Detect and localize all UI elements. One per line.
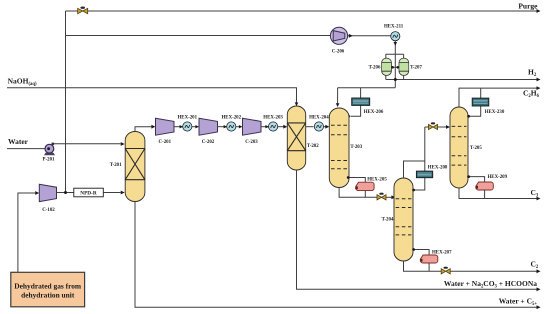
wire HEX-204 to T-203 (323, 125, 329, 129)
svg-text:T-204: T-204 (382, 218, 394, 223)
node NaOH label (8, 77, 37, 88)
svg-text:C-201: C-201 (159, 140, 172, 145)
wire T-202 bottoms to Na2CO3 outlet (297, 170, 541, 291)
wire T-201 overhead to C-201 (135, 125, 155, 132)
node C2 label (531, 260, 539, 271)
heat exchanger HEX-204 (314, 122, 323, 131)
node C2H6 label (523, 89, 540, 100)
source box dehydrated gas (11, 272, 85, 307)
wire PSA crossover (391, 66, 399, 69)
wire T-204 bottoms to C2 outlet (404, 261, 541, 273)
node HEX-203 label (263, 116, 283, 121)
svg-text:HEX-207: HEX-207 (432, 250, 452, 255)
node HEX-208 label (428, 166, 448, 171)
node HEX-230 label (485, 110, 505, 115)
svg-text:T-202: T-202 (307, 144, 319, 149)
wire T-203 side reboiler HEX-205 branch (347, 176, 365, 197)
wire T-204 side reboiler HEX-207 branch (412, 248, 429, 271)
wire HEX-230 branch (467, 88, 481, 118)
heat exchanger HEX-202 (227, 122, 236, 131)
node H2 label (528, 68, 537, 79)
node Water label (8, 137, 29, 146)
column T-202 (287, 106, 305, 170)
svg-text:HEX-208: HEX-208 (428, 166, 448, 171)
svg-text:HEX-206: HEX-206 (364, 110, 384, 115)
vessel T-206 (382, 58, 392, 75)
wire PSA top header (386, 54, 404, 58)
wire purge line y11 (66, 9, 541, 13)
compressor C-203 (243, 118, 262, 135)
svg-text:Water + C5+: Water + C5+ (499, 297, 538, 308)
wire PSA bottoms and H2 header (386, 76, 541, 82)
wire HEX-202 to C-203 (236, 125, 243, 128)
node Purge label (518, 1, 538, 10)
node T-204 label (382, 218, 394, 223)
svg-text:C-203: C-203 (245, 140, 258, 145)
svg-text:T-206: T-206 (369, 65, 381, 70)
node C-203 label (245, 140, 258, 145)
valve T-204 bottoms (441, 267, 450, 274)
svg-text:C-202: C-202 (202, 140, 215, 145)
node junction trunk-feed (64, 191, 67, 194)
node C3 label (531, 188, 539, 199)
node HEX-209 label (488, 175, 508, 180)
wire recycle to C-206 y35.5 (66, 35, 331, 37)
wire T-201 bottoms to C5+ outlet (135, 202, 541, 310)
svg-text:HEX-205: HEX-205 (367, 178, 387, 183)
node HEX-204 label (309, 116, 329, 121)
heat exchanger HEX-205 (355, 182, 374, 190)
column T-204 (394, 178, 413, 261)
node HEX-206 label (364, 110, 384, 115)
node HEX-201 label (178, 116, 198, 121)
svg-text:HEX-201: HEX-201 (178, 116, 198, 121)
svg-text:Dehydrated gas from: Dehydrated gas from (14, 281, 82, 290)
valve T-205 feed (429, 122, 438, 129)
node HEX-207 label (432, 250, 452, 255)
wire C-201 to HEX-201 (174, 125, 183, 128)
node T-205 label (470, 146, 482, 151)
node T-202 label (307, 144, 319, 149)
node Water + Na2CO3 + HCOONa label (444, 279, 537, 290)
node HEX-202 label (222, 116, 242, 121)
compressor C-202 (199, 118, 218, 135)
wire NaOH feed line (7, 88, 298, 107)
svg-text:T-201: T-201 (110, 163, 122, 168)
column T-205 (450, 107, 468, 188)
reactor NPD-R (74, 188, 104, 197)
wire T-204 overhead to valve line (404, 127, 425, 191)
heat exchanger HEX-207 (420, 255, 438, 263)
wire valve line to T-205 (425, 125, 450, 129)
wire NPD-R to T-201 (103, 191, 124, 195)
wire C-102 to NPD-R (57, 192, 74, 194)
node T-206 label (369, 65, 381, 70)
heat exchanger HEX-208 (416, 171, 432, 178)
wire T-205 overhead to C2H6 outlet (459, 86, 541, 107)
wire recycle trunk vertical x65.5 (65, 11, 67, 192)
svg-text:HEX-230: HEX-230 (485, 110, 505, 115)
svg-text:C-206: C-206 (332, 49, 345, 54)
svg-text:T-203: T-203 (350, 145, 362, 150)
wire HEX-203 to T-202 (277, 125, 287, 129)
wire feed riser from box (18, 191, 39, 272)
svg-text:NPD-R: NPD-R (80, 191, 97, 197)
heat exchanger HEX-230 (472, 98, 489, 106)
svg-text:T-207: T-207 (410, 65, 422, 70)
svg-text:HEX-204: HEX-204 (309, 116, 329, 121)
node T-207 label (410, 65, 422, 70)
heat exchanger HEX-206 (352, 98, 370, 105)
compressor C-206 recycle (330, 27, 347, 44)
svg-text:P-201: P-201 (43, 157, 56, 162)
node C-102 label (42, 208, 55, 213)
svg-text:HEX-203: HEX-203 (263, 116, 283, 121)
node C-201 label (159, 140, 172, 145)
heat exchanger HEX-203 (269, 122, 278, 131)
wire T-202 to HEX-204 (306, 126, 314, 128)
compressor C-102 (39, 184, 56, 201)
wire tail gas header y87.7 (336, 88, 395, 107)
node P-201 label (43, 157, 56, 162)
node C-202 label (202, 140, 215, 145)
wire T-203 bottoms to T-204 (339, 188, 395, 200)
wire pump discharge to T-201 (54, 142, 125, 146)
svg-text:Purge: Purge (518, 1, 538, 10)
wire T-205 side reboiler HEX-209 branch (467, 175, 484, 198)
pump P-201 (44, 143, 55, 156)
node C-206 label (332, 49, 345, 54)
node HEX-205 label (367, 178, 387, 183)
node T-203 label (350, 145, 362, 150)
node HEX-211 label (384, 24, 404, 29)
wire C-206 to HEX-211 (348, 34, 391, 38)
wire HEX-206 branch (347, 88, 360, 118)
vessel T-207 (399, 58, 409, 75)
svg-text:Water + Na2CO3 + HCOONa: Water + Na2CO3 + HCOONa (444, 279, 537, 290)
compressor C-201 (156, 118, 175, 135)
svg-text:HEX-211: HEX-211 (384, 24, 404, 29)
svg-text:C-102: C-102 (42, 208, 55, 213)
svg-text:HEX-202: HEX-202 (222, 116, 242, 121)
svg-text:T-205: T-205 (470, 146, 482, 151)
heat exchanger HEX-211 (391, 32, 400, 41)
svg-text:HEX-209: HEX-209 (488, 175, 508, 180)
heat exchanger HEX-209 (475, 182, 493, 190)
valve purge (78, 7, 88, 14)
column T-201 (125, 132, 145, 202)
svg-text:dehydration unit: dehydration unit (21, 290, 75, 299)
heat exchanger HEX-201 (183, 122, 192, 131)
column T-203 (329, 108, 349, 188)
svg-text:Water: Water (8, 137, 29, 146)
valve T-203 bottoms (377, 193, 386, 200)
wire water suction line (7, 148, 46, 150)
node Water + C5+ label (499, 297, 538, 308)
wire C-203 to HEX-203 (261, 125, 269, 128)
node T-201 label (110, 163, 122, 168)
wire HEX-201 to C-202 (192, 125, 199, 128)
wire HEX-211 down to PSA (394, 41, 398, 88)
wire C-202 to HEX-202 (218, 125, 228, 128)
wire T-205 bottoms to C3 outlet (459, 188, 541, 200)
